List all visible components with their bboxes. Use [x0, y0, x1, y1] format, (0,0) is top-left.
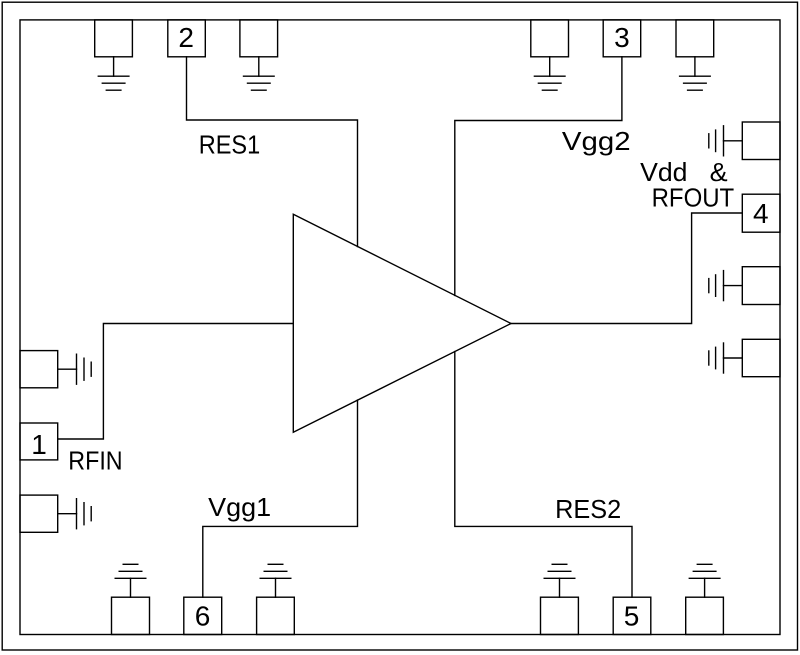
ground above pad E — [115, 564, 146, 597]
wire net Vgg2 from pad 3 to amplifier — [455, 57, 622, 296]
svg-text:2: 2 — [178, 22, 194, 53]
ground above pad F — [260, 564, 291, 597]
svg-text:1: 1 — [31, 429, 47, 460]
pad bottom grounded H — [686, 597, 724, 634]
pad top grounded C — [531, 20, 569, 57]
svg-text:Vgg2: Vgg2 — [562, 126, 631, 156]
svg-text:RFIN: RFIN — [68, 445, 122, 475]
wire net RES1 from pad 2 to amplifier — [187, 57, 358, 247]
pad 4 — [742, 194, 780, 232]
pad 5 — [613, 597, 651, 634]
pad top grounded B — [240, 20, 278, 57]
ground sideways right of lower-left pad — [58, 499, 91, 529]
pad right bypass top — [742, 122, 780, 160]
ground under pad B — [244, 57, 275, 90]
svg-text:Vgg1: Vgg1 — [208, 492, 271, 522]
ground sideways left of right pad middle — [709, 271, 743, 301]
pad left bypass lower — [20, 495, 58, 532]
pad 1 — [20, 423, 58, 460]
pad bottom grounded G — [541, 597, 579, 634]
svg-text:RES1: RES1 — [199, 129, 261, 159]
op-amp amplifier triangle — [293, 214, 511, 432]
ground under pad D — [680, 57, 711, 90]
pad left bypass upper — [20, 351, 58, 388]
ground under pad C — [534, 57, 565, 90]
svg-text:4: 4 — [753, 198, 769, 229]
svg-text:RES2: RES2 — [555, 494, 621, 524]
pad right bypass middle — [742, 267, 780, 305]
wire net RES2 from amplifier to pad 5 — [455, 352, 632, 598]
wire net Vgg1 from amplifier to pad 6 — [203, 400, 358, 597]
ground above pad G — [544, 564, 575, 597]
pad bottom grounded E — [112, 597, 150, 634]
pad 6 — [184, 597, 222, 634]
ground sideways left of right pad top — [709, 126, 743, 156]
svg-text:5: 5 — [624, 600, 640, 631]
ground above pad H — [689, 564, 720, 597]
pad 2 — [168, 20, 206, 57]
svg-text:RFOUT: RFOUT — [652, 183, 735, 213]
pad top grounded D — [676, 20, 714, 57]
pad top grounded A — [95, 20, 133, 57]
ground under pad A — [98, 57, 129, 90]
pad right bypass bottom — [742, 339, 780, 376]
wire net RFIN from pad 1 to amplifier input — [58, 324, 294, 440]
pad 3 — [603, 20, 641, 57]
pad bottom grounded F — [257, 597, 295, 634]
svg-text:6: 6 — [195, 600, 211, 631]
ground sideways left of right pad bottom — [709, 343, 743, 373]
wire net RFOUT from amplifier output to pad 4 — [511, 213, 742, 324]
svg-text:3: 3 — [614, 22, 630, 53]
ground sideways right of upper-left pad — [58, 354, 91, 384]
